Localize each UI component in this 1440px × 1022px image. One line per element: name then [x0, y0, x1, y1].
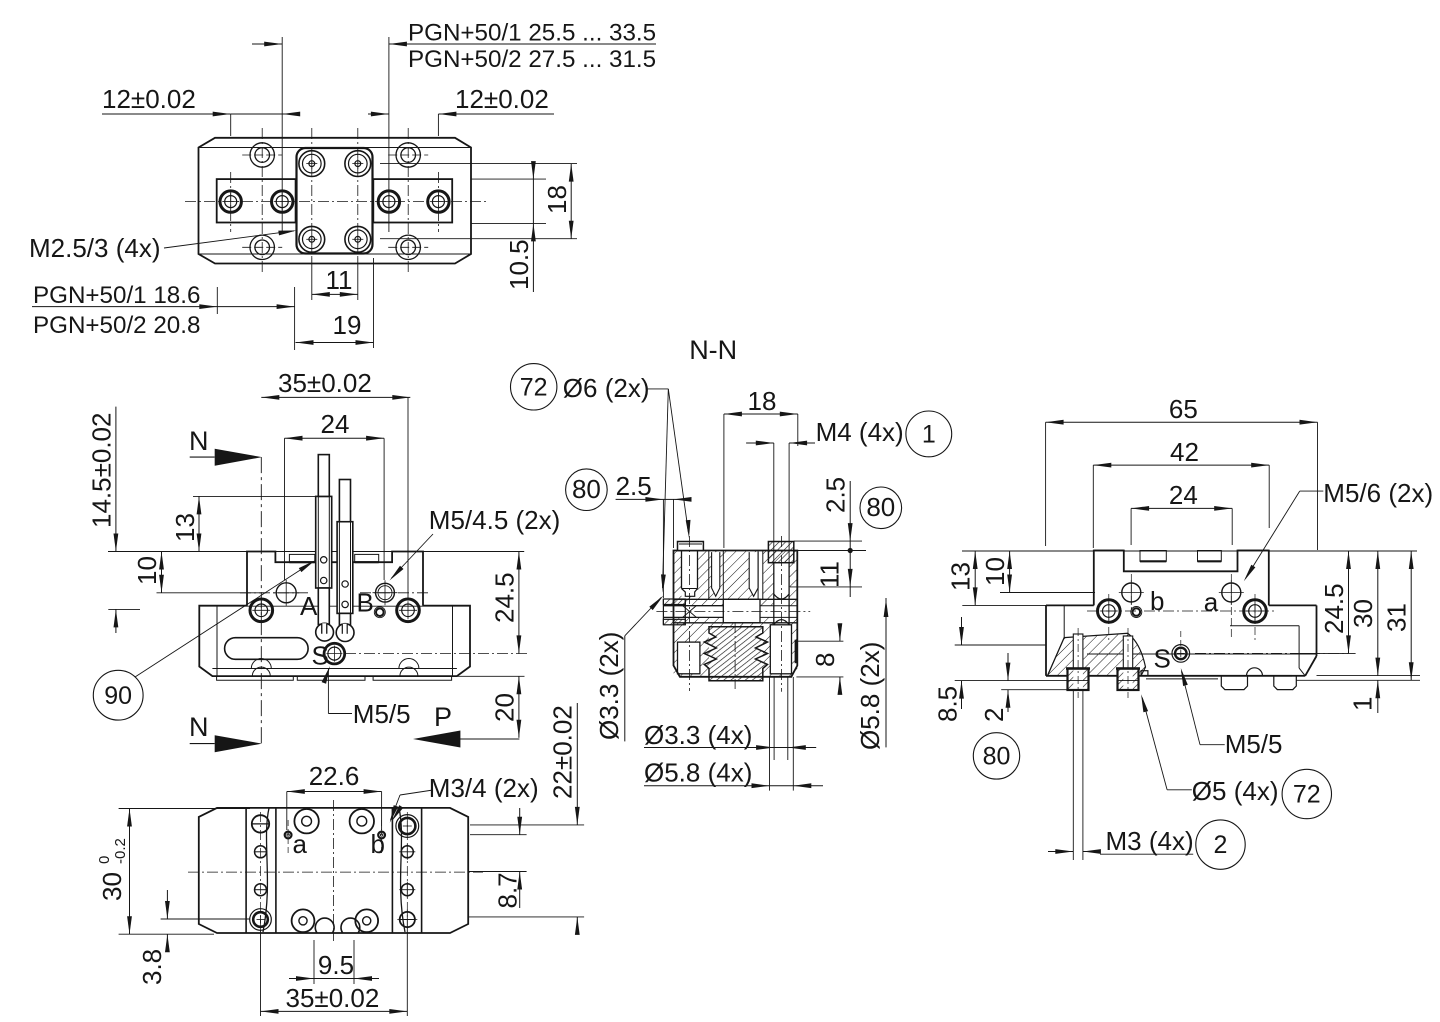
svg-text:30: 30: [1348, 599, 1378, 628]
svg-text:2: 2: [979, 708, 1009, 722]
svg-text:N: N: [189, 426, 209, 456]
svg-text:8: 8: [810, 653, 840, 667]
svg-text:M5/6 (2x): M5/6 (2x): [1323, 478, 1433, 508]
svg-text:22.6: 22.6: [309, 761, 360, 791]
svg-text:65: 65: [1169, 394, 1198, 424]
svg-text:Ø3.3 (4x): Ø3.3 (4x): [644, 720, 752, 750]
svg-text:8.5: 8.5: [933, 686, 963, 722]
svg-text:13: 13: [170, 513, 200, 542]
svg-text:72: 72: [1293, 781, 1321, 809]
svg-text:18: 18: [542, 185, 572, 214]
svg-text:Ø5.8 (2x): Ø5.8 (2x): [855, 642, 885, 750]
svg-text:B: B: [357, 588, 374, 618]
svg-text:8.7: 8.7: [492, 872, 522, 908]
svg-text:M3 (4x): M3 (4x): [1106, 826, 1194, 856]
svg-text:12±0.02: 12±0.02: [455, 84, 549, 114]
svg-text:80: 80: [572, 474, 601, 504]
svg-text:S: S: [1154, 644, 1171, 674]
svg-text:S: S: [312, 641, 329, 671]
svg-text:Ø5 (4x): Ø5 (4x): [1192, 776, 1279, 806]
svg-text:b: b: [371, 829, 385, 859]
svg-text:31: 31: [1382, 603, 1412, 632]
svg-text:PGN+50/2 27.5 ... 31.5: PGN+50/2 27.5 ... 31.5: [408, 46, 656, 73]
svg-text:M4 (4x): M4 (4x): [816, 417, 904, 447]
svg-text:35±0.02: 35±0.02: [286, 983, 380, 1013]
svg-text:18: 18: [748, 386, 777, 416]
svg-text:M3/4 (2x): M3/4 (2x): [429, 773, 539, 803]
svg-text:M5/4.5 (2x): M5/4.5 (2x): [429, 505, 561, 535]
svg-text:PGN+50/1 18.6: PGN+50/1 18.6: [33, 282, 200, 309]
svg-text:20: 20: [490, 693, 520, 722]
svg-text:b: b: [1150, 586, 1164, 616]
svg-text:10: 10: [132, 556, 162, 585]
svg-text:13: 13: [946, 562, 976, 591]
svg-text:80: 80: [866, 492, 895, 522]
svg-text:14.5±0.02: 14.5±0.02: [87, 413, 117, 528]
svg-text:Ø3.3 (2x): Ø3.3 (2x): [594, 632, 624, 740]
svg-text:PGN+50/1 25.5 ... 33.5: PGN+50/1 25.5 ... 33.5: [408, 20, 656, 47]
svg-text:24: 24: [321, 409, 350, 439]
svg-text:11: 11: [326, 265, 353, 295]
svg-text:2.5: 2.5: [821, 477, 851, 513]
svg-text:24.5: 24.5: [1319, 583, 1349, 634]
svg-text:Ø5.8 (4x): Ø5.8 (4x): [644, 758, 752, 788]
svg-text:2.5: 2.5: [616, 471, 652, 501]
svg-text:10.5: 10.5: [504, 239, 534, 290]
svg-text:P: P: [434, 702, 452, 732]
svg-text:M2.5/3 (4x): M2.5/3 (4x): [29, 233, 161, 263]
svg-text:11: 11: [815, 561, 845, 588]
svg-text:a: a: [293, 829, 308, 859]
svg-text:72: 72: [520, 374, 548, 402]
svg-text:19: 19: [333, 310, 362, 340]
svg-text:-0.2: -0.2: [112, 838, 129, 864]
svg-text:35±0.02: 35±0.02: [278, 368, 372, 398]
svg-text:3.8: 3.8: [137, 949, 167, 985]
svg-text:Ø6 (2x): Ø6 (2x): [563, 373, 650, 403]
svg-text:22±0.02: 22±0.02: [548, 705, 578, 799]
svg-text:12±0.02: 12±0.02: [102, 84, 196, 114]
svg-text:PGN+50/2 20.8: PGN+50/2 20.8: [33, 312, 200, 339]
svg-text:A: A: [300, 591, 318, 621]
svg-text:42: 42: [1170, 437, 1199, 467]
svg-text:0: 0: [96, 856, 113, 864]
svg-text:30: 30: [97, 872, 127, 901]
svg-text:80: 80: [983, 743, 1011, 771]
svg-text:a: a: [1204, 587, 1219, 617]
svg-text:2: 2: [1214, 831, 1228, 859]
svg-text:1: 1: [1348, 697, 1378, 711]
svg-text:24.5: 24.5: [490, 572, 520, 623]
svg-text:N-N: N-N: [689, 335, 737, 365]
svg-text:M5/5: M5/5: [1225, 729, 1283, 759]
svg-text:9.5: 9.5: [318, 950, 354, 980]
svg-text:M5/5: M5/5: [353, 699, 411, 729]
svg-text:1: 1: [922, 421, 936, 449]
svg-text:10: 10: [980, 557, 1010, 586]
svg-text:24: 24: [1169, 480, 1198, 510]
svg-text:N: N: [189, 712, 209, 742]
svg-text:90: 90: [104, 682, 132, 710]
